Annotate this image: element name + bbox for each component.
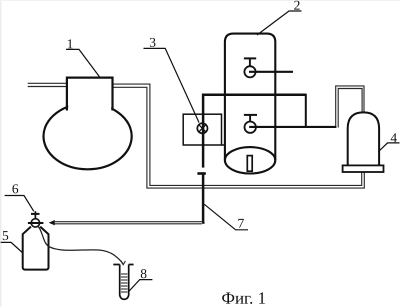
svg-text:7: 7 (237, 216, 244, 231)
frame edge left (0, 0, 2, 307)
test tube 8 (113, 265, 133, 300)
valve 6 on cylinder (28, 211, 44, 227)
hose arrow tip (121, 261, 126, 265)
label 4 (378, 130, 399, 152)
label 8 (129, 266, 152, 291)
label 7 (204, 204, 248, 230)
cylinder 2 inner tube (247, 156, 252, 172)
valve U2 lower (inside cylinder 2) (244, 115, 337, 133)
valve U1 upper (inside cylinder 2) (244, 58, 293, 77)
label 5 (1, 228, 23, 252)
joint T-bar under valve 3 (197, 172, 205, 175)
flask 1 neck (67, 70, 113, 111)
label 3 (144, 35, 200, 123)
arrowhead at valve 6 (49, 220, 55, 225)
label 2 (257, 0, 302, 35)
cylinder 2 (vessel body) (225, 34, 275, 161)
svg-text:6: 6 (12, 181, 19, 196)
svg-text:3: 3 (149, 35, 156, 50)
wire: right drop into lower valve line (305, 94, 307, 127)
wire: pipe from left open end to flask neck (double line) (28, 83, 67, 86)
frame edge top (0, 0, 400, 1)
wire: pipe from cylinder lower valve line up and over into vessel 4 dome (double line) (336, 86, 364, 128)
hose from valve 6 to test tube (38, 226, 123, 264)
vessel 4 base plate (343, 165, 384, 172)
svg-text:5: 5 (2, 228, 9, 243)
valve 3 (circle with X) (197, 123, 207, 167)
test tube graduations (121, 274, 128, 292)
svg-text:8: 8 (140, 266, 147, 281)
box around valve 3 (183, 114, 225, 145)
wire: pipe flask neck right, down at x148, along bottom to vessel 4 base (double line) (113, 84, 365, 188)
wire: thick line from valve 3 corner across cylinder to right drop (203, 95, 306, 123)
gas cylinder 5 (23, 227, 49, 270)
vessel 4 (dome) (348, 112, 379, 165)
label 1 (66, 36, 100, 77)
wire: vertical pipe 7 down to bottom corner (202, 174, 205, 223)
cylinder 2 bottom ellipse (225, 147, 275, 173)
label 6 (5, 181, 34, 211)
flask 1 (body ellipse) (44, 103, 132, 169)
wire: bottom pipe to valve 6 (double line) (55, 222, 203, 224)
svg-text:Фиг. 1: Фиг. 1 (222, 289, 267, 307)
